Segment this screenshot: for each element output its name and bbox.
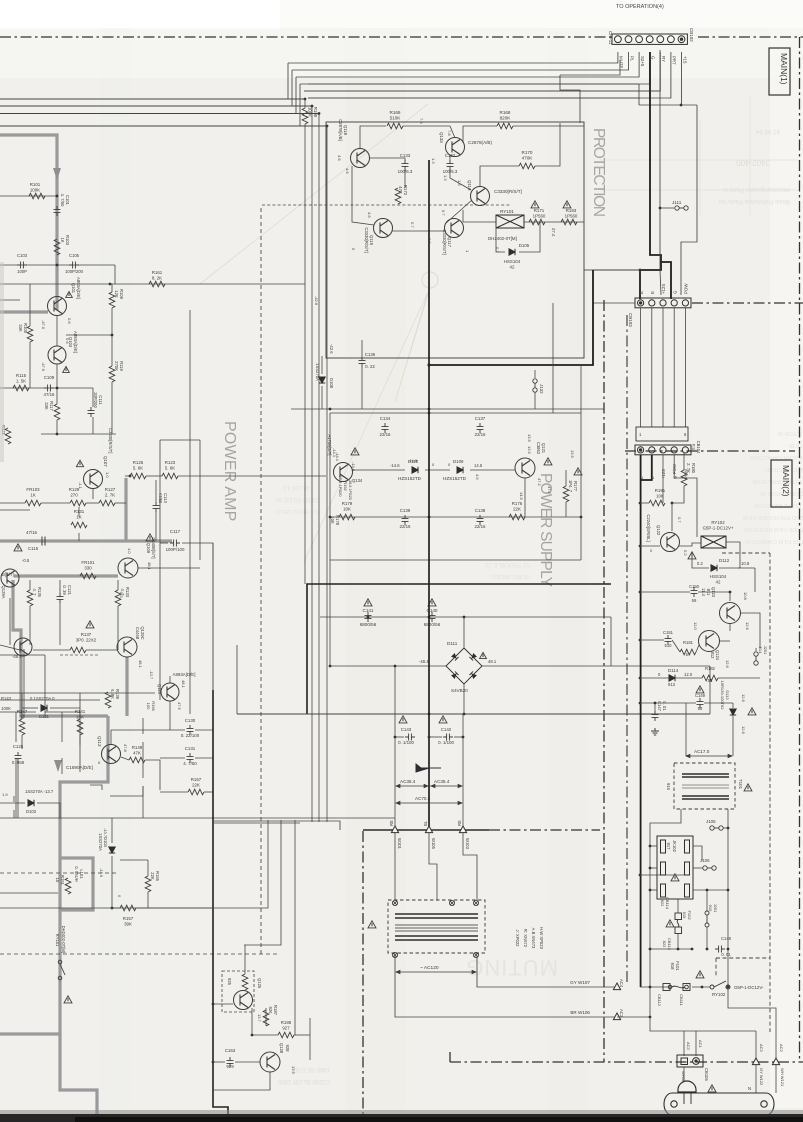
wire R167 right [204, 791, 213, 793]
wire 639-697 link [639, 104, 681, 106]
wire C163-Q128 [235, 1061, 260, 1063]
junction Q122 emitter [639, 545, 642, 548]
svg-text:TO OPERATION(4): TO OPERATION(4) [616, 4, 664, 10]
svg-text:48.1: 48.1 [488, 659, 497, 664]
junction JK pin2 [649, 867, 652, 870]
svg-text:-42.6: -42.6 [329, 344, 334, 354]
resistor R149 [129, 757, 145, 763]
wire left rows 645 [0, 644, 1, 646]
wire T101 left [650, 809, 681, 1017]
wire bundle elbow 3 [295, 77, 297, 114]
svg-text:W103: W103 [465, 838, 470, 850]
wire PT sec left [395, 956, 617, 1017]
wire vert 190 upper [189, 310, 191, 714]
warning RY102b [696, 971, 704, 978]
wire row 440-160 [160, 439, 200, 441]
section border chain right edge [799, 37, 801, 1060]
transistor Q119 [374, 219, 393, 238]
wire bundle elbow 2 [291, 70, 293, 106]
svg-text:J106: J106 [700, 858, 710, 863]
wire R117 low [56, 420, 58, 434]
svg-text:D114: D114 [668, 668, 679, 673]
ribbon cable box [636, 427, 688, 441]
svg-text:Q129AA1695: Q129AA1695 [0, 585, 6, 598]
capacitor C139 [402, 515, 409, 525]
svg-text:R169510K: R169510K [390, 110, 402, 121]
svg-text:AC17.0: AC17.0 [694, 749, 710, 754]
thick bus arrow [53, 168, 61, 180]
svg-text:1.0: 1.0 [105, 472, 110, 478]
resistor R121 [5, 428, 11, 444]
wire row 388 [0, 387, 93, 389]
junction ps2 [428, 516, 431, 519]
svg-text:HZS152TD: HZS152TD [398, 476, 422, 481]
svg-text:R1396. 8K: R1396. 8K [110, 689, 120, 700]
wire R180 low [672, 486, 684, 503]
capacitor C115 on bus [42, 537, 45, 546]
wire bundle to 639 [308, 83, 639, 85]
resistor R141 [77, 719, 83, 735]
pin 7 mark CB102 [680, 38, 683, 41]
wire D113 low [732, 716, 734, 756]
junction BR [649, 1016, 652, 1019]
warning triangle R193 [563, 201, 571, 208]
transistor Q115 [161, 683, 179, 701]
transistor Q118 [351, 149, 370, 168]
wire C130 low [142, 742, 144, 778]
transistor Q103 [48, 346, 66, 364]
resistor R155 [145, 876, 151, 892]
svg-text:D103: D103 [26, 809, 37, 814]
svg-text:27.4: 27.4 [551, 228, 556, 237]
wire vert heavy 650 [640, 52, 661, 299]
triangle W103 [459, 826, 466, 833]
wire R105 col [29, 284, 31, 326]
dashed boundary right h [722, 552, 770, 554]
wire row 700 [0, 692, 155, 694]
wire D108 col [321, 356, 323, 374]
svg-text:D109: D109 [453, 459, 464, 464]
svg-text:-13.7: -13.7 [103, 828, 108, 838]
transistor Q129C [117, 637, 137, 657]
wire D104 low [111, 856, 113, 908]
wire CB104 E heavy [640, 455, 642, 987]
junction 395-666 [394, 665, 397, 668]
resistor R119 [109, 366, 115, 382]
svg-text:R1151. 5K: R1151. 5K [16, 373, 27, 383]
svg-text:MO METAL OXIDE FILM RESISTOR: MO METAL OXIDE FILM RESISTOR [744, 526, 803, 532]
svg-text:CB111: CB111 [679, 994, 684, 1006]
wire FR103 row [0, 502, 25, 504]
diode D101 [41, 705, 47, 711]
capacitor C132 [447, 160, 454, 170]
wire CB102 pin2 [292, 52, 629, 70]
svg-text:0.7: 0.7 [495, 247, 500, 253]
wire C113 col [155, 480, 157, 502]
junction bridge top [463, 616, 466, 619]
junction bus4 [326, 125, 329, 128]
svg-text:14.5: 14.5 [474, 463, 483, 468]
wire diode row [352, 469, 405, 471]
wire C111 low [92, 417, 94, 434]
resistor R187 [263, 1010, 269, 1026]
section boundary solid transformer row [363, 829, 489, 831]
svg-text:47.8: 47.8 [123, 744, 128, 753]
connector CB103 [635, 298, 691, 308]
wire Q117 relay row [463, 221, 496, 223]
svg-text:01 730 82 OSLO: 01 730 82 OSLO [275, 508, 320, 514]
svg-text:47.9: 47.9 [177, 702, 182, 711]
wire R168 right [513, 125, 584, 127]
svg-text:R1235. 6K: R1235. 6K [165, 460, 176, 470]
transistor Q128 [260, 1052, 280, 1072]
connector CB104 [635, 445, 691, 455]
resistor R172 [395, 188, 401, 204]
warning RY102 [688, 552, 696, 559]
svg-text:R1618. 2K: R1618. 2K [152, 270, 163, 280]
capacitor C101 [54, 206, 61, 216]
svg-text:Interchangeable Parts w: Interchangeable Parts w [723, 186, 790, 193]
resistor R115 [13, 385, 29, 391]
svg-text:-48.4: -48.4 [419, 659, 429, 664]
capacitor C130 [187, 725, 194, 735]
pin1 CB104 [639, 448, 642, 451]
wire bundle elbow 4 [299, 84, 301, 126]
wire Q117 up [462, 210, 464, 222]
wire R127 right [115, 502, 126, 504]
wire row 434 [41, 433, 116, 435]
thick bus Q109 row [14, 574, 118, 577]
wire T101 right rail [727, 809, 729, 987]
svg-text:AC35.4: AC35.4 [434, 779, 450, 784]
wire CB103 pin2 down [651, 308, 653, 427]
diode D105 [509, 249, 515, 255]
wire CB105 AC1 drop [695, 1031, 697, 1056]
svg-text:CEFAMIC TUBULAR CAPACITOR: CEFAMIC TUBULAR CAPACITOR [750, 454, 803, 460]
wire CB102 pin4 [300, 52, 650, 84]
svg-text:~ AC120: ~ AC120 [420, 965, 439, 971]
capacitor C117 [170, 540, 180, 547]
resistor R133 [115, 590, 121, 606]
wire col 312 [311, 106, 313, 822]
wire C133 row [369, 158, 405, 161]
wire R170 row [480, 166, 519, 186]
warning F102 [666, 920, 674, 927]
capacitor C113 [153, 502, 160, 512]
wire R188 right [294, 1034, 310, 1036]
section border chain MAIN2 left [626, 315, 628, 984]
wire D112 col right [754, 568, 756, 592]
T101 core lines [682, 785, 729, 788]
svg-text:R168820K: R168820K [500, 110, 512, 121]
svg-text:RE: RE [457, 820, 462, 826]
wire R155 col [147, 860, 149, 876]
transistor Q125 [234, 991, 253, 1010]
wire CB103 pin4 down [673, 308, 675, 427]
label AC120 arrow [396, 970, 476, 973]
svg-text:D108: D108 [329, 378, 334, 389]
svg-text:WH W121: WH W121 [780, 1068, 785, 1087]
resistor R137 [70, 647, 86, 653]
wire R170 right [535, 123, 560, 166]
wire R155 low [147, 892, 149, 908]
wire col 327 [326, 126, 328, 822]
transistor Q117 [445, 219, 464, 238]
wire Q122 emitter [640, 545, 660, 547]
capacitor C147 [652, 711, 659, 721]
wire J105 stub [723, 827, 728, 829]
wire prot bottom row [291, 408, 604, 410]
wire JK102 right pin3 [693, 889, 728, 891]
ground C147 [651, 728, 659, 735]
wire D103 right [37, 803, 60, 818]
wire step top [560, 75, 580, 123]
svg-text:DH2402-0T[M]: DH2402-0T[M] [488, 236, 517, 241]
transistor Q123 [720, 603, 741, 624]
svg-text:H.W XP023: H.W XP023 [539, 927, 544, 950]
svg-text:CFF11: CFF11 [608, 31, 613, 45]
wire dashed 954 [0, 953, 280, 955]
svg-text:-14.1: -14.1 [332, 448, 337, 458]
resistor FR103 [25, 500, 41, 506]
wire bus L3 [0, 113, 319, 115]
wire D114 row [640, 677, 669, 679]
resistor R168 [497, 123, 513, 129]
capacitor C142 [443, 734, 453, 741]
wire ps right col [580, 365, 582, 560]
svg-text:AC4: AC4 [619, 979, 624, 988]
svg-text:J105: J105 [706, 819, 716, 824]
wire JK102 right pin2 [693, 867, 703, 869]
svg-text:CB103: CB103 [628, 313, 633, 327]
wire ps top row [330, 412, 581, 414]
svg-text:J111: J111 [672, 200, 682, 205]
label MAIN(2) box [771, 460, 792, 507]
fuse F101 [668, 985, 688, 989]
capacitor C151 [665, 635, 672, 645]
wire F101-RY102 [692, 986, 710, 988]
warning C149 [696, 686, 704, 693]
AC plug [664, 1093, 774, 1115]
wire vert 639 [638, 84, 640, 105]
wire C125 col [13, 796, 15, 802]
wire Q103 row [66, 334, 112, 336]
svg-text:S4VB20: S4VB20 [451, 688, 468, 693]
transistor Q133 [446, 138, 465, 157]
resistor R171 [529, 219, 545, 225]
junction F102 bot [677, 948, 680, 951]
svg-text:J: XP022: J: XP022 [515, 930, 520, 948]
wire D104 col [111, 818, 113, 843]
wire C113 low [155, 512, 157, 541]
svg-text:MP METALLIZED POLYESTER FILM: MP METALLIZED POLYESTER FILM [743, 514, 803, 520]
resistor R151 [65, 878, 71, 894]
wire diode row2 [425, 469, 450, 471]
bridge diode 1 [451, 653, 459, 661]
svg-text:+12S: +12S [661, 469, 666, 479]
junction 330-666 [329, 665, 332, 668]
wire FR103-R129 [41, 502, 70, 504]
connector CB102 [612, 34, 687, 44]
wire CB104 E2 ubar [641, 455, 652, 480]
svg-text:R: XN672: R: XN672 [523, 929, 528, 948]
wire C149 row [640, 702, 696, 704]
bridge rectifier D111 [446, 648, 482, 684]
wire row 510 [0, 509, 30, 511]
wire left group 640 [0, 645, 20, 650]
wire CB104 +12S [662, 455, 664, 503]
wire R125 row [125, 475, 130, 477]
thick bus Q129C down [125, 657, 128, 716]
wire C130 row [111, 729, 185, 731]
wire c121 col [59, 580, 61, 594]
wire Q119 Q117 row [392, 230, 445, 232]
svg-text:GY W107: GY W107 [570, 980, 590, 985]
junction ps4 [580, 516, 583, 519]
wire left row 266 [0, 264, 115, 266]
svg-text:+12S: +12S [661, 284, 666, 294]
junction RY102 right [727, 986, 730, 989]
svg-text:7.8: 7.8 [447, 130, 452, 136]
pin CB105 [694, 1059, 697, 1062]
svg-text:POW: POW [684, 283, 689, 294]
svg-text:-47.9: -47.9 [41, 362, 46, 372]
section border chain mid [603, 300, 605, 1062]
wire F101 feed [640, 986, 672, 988]
svg-text:G5P-1-DC12V-: G5P-1-DC12V- [734, 985, 764, 990]
svg-text:Q122: Q122 [656, 525, 661, 536]
svg-text:C11347/50: C11347/50 [158, 493, 168, 504]
wire left 595-640 [9, 598, 11, 645]
warning Q103 [63, 367, 70, 373]
wire W105 down [429, 833, 437, 900]
wire elbow 620 [560, 60, 620, 75]
warning Q121 [544, 458, 552, 465]
dome plug half [678, 1081, 696, 1104]
svg-text:916: 916 [666, 783, 671, 791]
capacitor C125 [15, 752, 22, 762]
transformer winding bars [395, 914, 478, 940]
resistor R182 [702, 675, 718, 681]
junction JK pin3 right [727, 889, 730, 892]
wire D114-R182 [675, 677, 702, 679]
svg-text:A893A[D/E]: A893A[D/E] [173, 672, 196, 677]
svg-text:R119270K: R119270K [114, 361, 124, 371]
capacitor C163 [227, 1057, 234, 1067]
junction 57-388 [56, 387, 59, 390]
jumper J251 [754, 652, 758, 665]
wire Q124 row [720, 640, 730, 642]
svg-text:0.7: 0.7 [677, 517, 682, 523]
wire ps left col [329, 413, 331, 560]
wire R191 left [640, 502, 649, 504]
svg-text:SONG MILIEU: SONG MILIEU [491, 573, 530, 579]
wire R169 row [403, 126, 455, 138]
wire C133 bottom [404, 169, 406, 188]
diode D104 [109, 847, 115, 853]
svg-text:1.0: 1.0 [127, 548, 132, 554]
chain corner bottom [449, 1052, 451, 1062]
wire C149 right [704, 702, 733, 704]
svg-text:0.6: 0.6 [67, 318, 72, 324]
junction 875 [639, 874, 642, 877]
wire R109 col [111, 284, 113, 292]
warning JK102 [671, 874, 679, 881]
wire row 893 [0, 892, 58, 894]
thick bus bottom hook [60, 1034, 97, 1122]
wire R168 row [463, 126, 497, 143]
wire row 710 left [0, 711, 36, 713]
junction bus1 [304, 98, 307, 101]
wire heavy 593-365 [429, 270, 593, 365]
warning R177 [574, 468, 582, 475]
wire R131 col [78, 507, 80, 517]
warning R137 [86, 621, 94, 628]
svg-text:AC3: AC3 [619, 1009, 624, 1018]
svg-text:R1802. 7K: R1802. 7K [686, 463, 696, 474]
jumper J111 circles [675, 206, 688, 210]
svg-text:B[S/T]: B[S/T] [2, 572, 14, 577]
svg-text:PROTECTION: PROTECTION [590, 128, 607, 216]
wire W101 down [394, 833, 396, 900]
junction 650 987 [649, 986, 652, 989]
junction ps3 [329, 516, 332, 519]
wire +15 rail [682, 52, 698, 105]
svg-text:12.6: 12.6 [725, 660, 730, 669]
transformer terminal circles [392, 900, 397, 905]
junction c143 [394, 736, 397, 739]
svg-text:4.5: 4.5 [475, 474, 480, 480]
wire J132 low [534, 392, 536, 409]
diode D103 [28, 800, 34, 806]
wire bundle to protection 1 [304, 90, 660, 92]
svg-text:C2878(A/B): C2878(A/B) [468, 140, 492, 145]
wire ps mid row [330, 516, 581, 518]
warning Q107 [76, 460, 83, 466]
svg-text:C1210. 39: C1210. 39 [62, 585, 72, 596]
wire diode row3 [470, 469, 515, 471]
svg-text:12.0: 12.0 [693, 622, 698, 631]
junction 640-270 [639, 269, 642, 272]
wire D112 row [738, 567, 740, 569]
wire C136 low [361, 366, 363, 409]
svg-text:4.6: 4.6 [367, 212, 372, 218]
power transformer PT primary box [388, 900, 485, 953]
transistor Q134 [334, 463, 353, 482]
svg-text:D101: D101 [39, 714, 50, 719]
wire c121 low [59, 602, 61, 645]
wire bundle elbow 1 [287, 63, 289, 99]
faint scan mark [422, 272, 438, 288]
wire Q123 col [729, 624, 731, 631]
wire dashed RY101 [0, 872, 118, 874]
wire col 115 [114, 265, 116, 284]
transformer T101 box [674, 763, 735, 809]
wire bus L4 [0, 125, 327, 127]
junction 105 [680, 104, 683, 107]
junction C150 right [729, 591, 732, 594]
wire ps row 666 left [330, 665, 446, 667]
wire R141 low [61, 758, 63, 774]
section border chain bottom right [450, 1061, 803, 1063]
svg-text:Q133: Q133 [439, 132, 444, 143]
resistor R167 [188, 789, 204, 795]
svg-text:0.2: 0.2 [697, 561, 703, 566]
svg-text:12.0: 12.0 [684, 672, 693, 677]
wire long vert 213 [213, 690, 245, 1117]
wire BR down [650, 1017, 756, 1031]
svg-text:-13.9: -13.9 [99, 868, 104, 878]
